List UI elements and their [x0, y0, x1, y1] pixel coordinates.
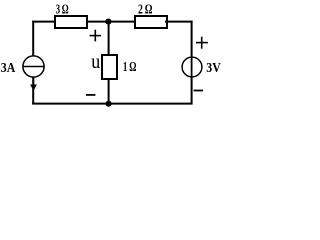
svg-text:1 Ω: 1 Ω: [123, 60, 136, 75]
svg-text:3V: 3V: [206, 61, 221, 76]
svg-text:u: u: [91, 52, 100, 73]
svg-text:3 Ω: 3 Ω: [56, 2, 69, 17]
svg-text:2 Ω: 2 Ω: [138, 2, 153, 17]
svg-text:3A: 3A: [1, 61, 16, 76]
